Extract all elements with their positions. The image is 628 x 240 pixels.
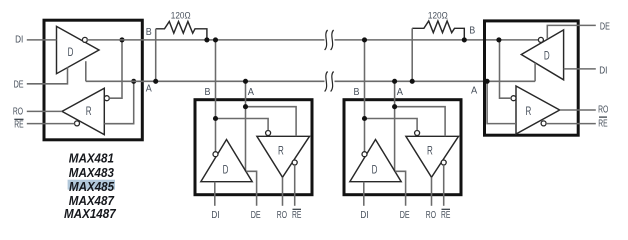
svg-text:MAX483: MAX483 <box>69 165 115 180</box>
wire U1 internal A branch to receiver <box>104 81 133 123</box>
svg-text:RO: RO <box>277 210 287 221</box>
label DE U2 <box>251 210 261 221</box>
label RO U1 <box>13 107 23 118</box>
transceiver U3 box <box>344 100 461 195</box>
wire U2 B branch to receiver <box>216 119 269 131</box>
svg-text:R: R <box>86 104 92 118</box>
svg-text:MAX1487: MAX1487 <box>64 206 116 221</box>
label MAX481 <box>69 151 114 166</box>
svg-text:A: A <box>397 87 404 98</box>
svg-text:RO: RO <box>426 210 436 221</box>
break symbol bus A <box>325 72 334 92</box>
receiver R U1 <box>62 88 109 134</box>
label DE U3 <box>400 210 410 221</box>
label MAX485 <box>69 179 115 194</box>
label DI U1 <box>15 35 23 46</box>
label RO U4 <box>598 104 608 115</box>
svg-text:RO: RO <box>598 104 608 115</box>
label B left <box>146 27 152 38</box>
label A U2 <box>248 87 255 98</box>
junction dot U3 A internal <box>392 104 397 109</box>
transceiver U2 box <box>195 100 312 195</box>
label RE-bar U3 <box>441 209 451 221</box>
svg-text:R: R <box>278 144 284 158</box>
svg-text:A: A <box>146 84 152 95</box>
wire DI U1 <box>27 39 57 41</box>
label RO U2 <box>277 210 287 221</box>
wire RO U1 <box>27 110 62 112</box>
svg-text:120Ω: 120Ω <box>428 10 448 21</box>
wire U4 driver output A <box>534 63 536 82</box>
junction dot U2-A bus <box>243 79 248 84</box>
wire U3 B drop <box>364 40 366 152</box>
svg-text:B: B <box>146 27 152 38</box>
svg-text:RE: RE <box>292 210 302 221</box>
highlight MAX485 <box>68 180 115 190</box>
junction dot RT1-A <box>153 79 158 84</box>
svg-text:MAX485: MAX485 <box>69 179 115 194</box>
receiver R U2 <box>257 131 310 178</box>
svg-text:RE: RE <box>441 210 451 221</box>
wire U4 B branch to receiver <box>500 40 512 98</box>
wire RE U3 <box>443 165 445 206</box>
resistor RT1 120ohm <box>156 22 207 82</box>
svg-text:DE: DE <box>600 21 610 32</box>
receiver R U3 <box>406 131 459 178</box>
wire RE U1 <box>27 123 75 125</box>
label A U3 <box>397 87 404 98</box>
svg-text:DE: DE <box>14 79 24 90</box>
wire RE U2 <box>294 165 296 206</box>
junction dot U2 A internal <box>243 104 248 109</box>
label 120ohm RT2 <box>428 10 448 21</box>
label MAX487 <box>69 193 115 208</box>
label 120ohm RT1 <box>171 11 191 22</box>
wire DI U4 <box>564 68 596 70</box>
wire DI U2 <box>214 182 216 206</box>
wire bus A <box>86 80 535 82</box>
wire DE U1 <box>27 67 68 83</box>
label B U2 <box>205 87 211 98</box>
resistor RT2 120ohm <box>412 21 464 81</box>
label MAX1487 <box>64 206 116 221</box>
label DE U1 <box>14 79 24 90</box>
label A left <box>146 84 152 95</box>
junction dot U4 A <box>485 79 490 84</box>
wire U2 A drop <box>245 81 247 171</box>
label RE-bar U2 <box>292 209 302 221</box>
svg-text:A: A <box>248 87 255 98</box>
svg-text:120Ω: 120Ω <box>171 11 191 22</box>
label MAX483 <box>69 165 115 180</box>
label DI U4 <box>599 65 607 76</box>
svg-text:D: D <box>223 163 229 177</box>
label DE U4 <box>600 21 610 32</box>
wire RO U4 <box>560 109 596 111</box>
junction dot RT2-A <box>410 79 415 84</box>
wire RO U2 <box>282 177 284 206</box>
wire DE U2 <box>246 171 256 206</box>
junction dot U3-A bus <box>392 79 397 84</box>
svg-text:B: B <box>469 26 475 37</box>
junction dot U3-B bus <box>362 37 367 42</box>
junction dot RT1-B <box>204 37 209 42</box>
svg-text:B: B <box>205 87 211 98</box>
svg-text:MAX481: MAX481 <box>69 151 114 166</box>
label B right <box>469 26 475 37</box>
driver D U1 <box>57 26 100 73</box>
break symbol bus B <box>325 30 334 50</box>
wire U3 A drop <box>394 81 396 171</box>
label RE-bar U4 <box>598 117 608 129</box>
wire U1 internal B branch to receiver <box>109 40 122 98</box>
svg-text:DE: DE <box>400 210 410 221</box>
svg-text:R: R <box>526 104 532 118</box>
svg-text:R: R <box>427 144 433 158</box>
junction dot U1 A <box>131 79 136 84</box>
svg-text:DI: DI <box>15 35 23 46</box>
svg-text:D: D <box>372 163 378 177</box>
wire DE U3 <box>395 171 405 206</box>
label A right <box>471 86 478 97</box>
svg-text:RE: RE <box>598 119 608 130</box>
wire DE U4 <box>547 25 596 39</box>
transceiver U1 box <box>44 20 142 140</box>
junction dot U2-B bus <box>213 37 218 42</box>
svg-text:RO: RO <box>13 107 23 118</box>
svg-text:D: D <box>544 49 550 63</box>
wire RE U4 <box>546 123 596 125</box>
label B U3 <box>354 87 360 98</box>
driver D U4 <box>521 30 563 80</box>
transceiver U4 box <box>485 21 579 135</box>
svg-text:DI: DI <box>360 210 368 221</box>
svg-text:B: B <box>354 87 360 98</box>
wire U3 B branch to receiver <box>365 119 418 131</box>
wire DI U3 <box>363 182 365 206</box>
junction dot U2 B internal <box>213 116 218 121</box>
wire U2 A branch to receiver <box>246 107 297 137</box>
svg-text:DE: DE <box>251 210 261 221</box>
driver D U2 <box>201 140 252 182</box>
driver D U3 <box>350 140 401 182</box>
label DI U3 <box>360 210 368 221</box>
wire U1 driver output A <box>85 61 87 81</box>
junction dot U1 B <box>119 37 124 42</box>
wire bus B <box>86 39 538 41</box>
svg-text:D: D <box>68 45 74 59</box>
label RE-bar U1 <box>14 119 24 130</box>
wire U3 A branch to receiver <box>395 107 446 137</box>
wire U4 A branch to receiver <box>487 81 516 123</box>
junction dot U3 B internal <box>362 116 367 121</box>
junction dot RT2-B <box>462 37 467 42</box>
label RO U3 <box>426 210 436 221</box>
svg-text:DI: DI <box>599 65 607 76</box>
wire RO U3 <box>431 177 433 206</box>
wire U2 B drop <box>215 40 217 152</box>
label DI U2 <box>211 210 219 221</box>
svg-text:RE: RE <box>14 119 24 130</box>
svg-text:DI: DI <box>211 210 219 221</box>
receiver R U4 <box>511 86 560 134</box>
junction dot U4 B <box>496 37 501 42</box>
svg-text:A: A <box>471 86 478 97</box>
